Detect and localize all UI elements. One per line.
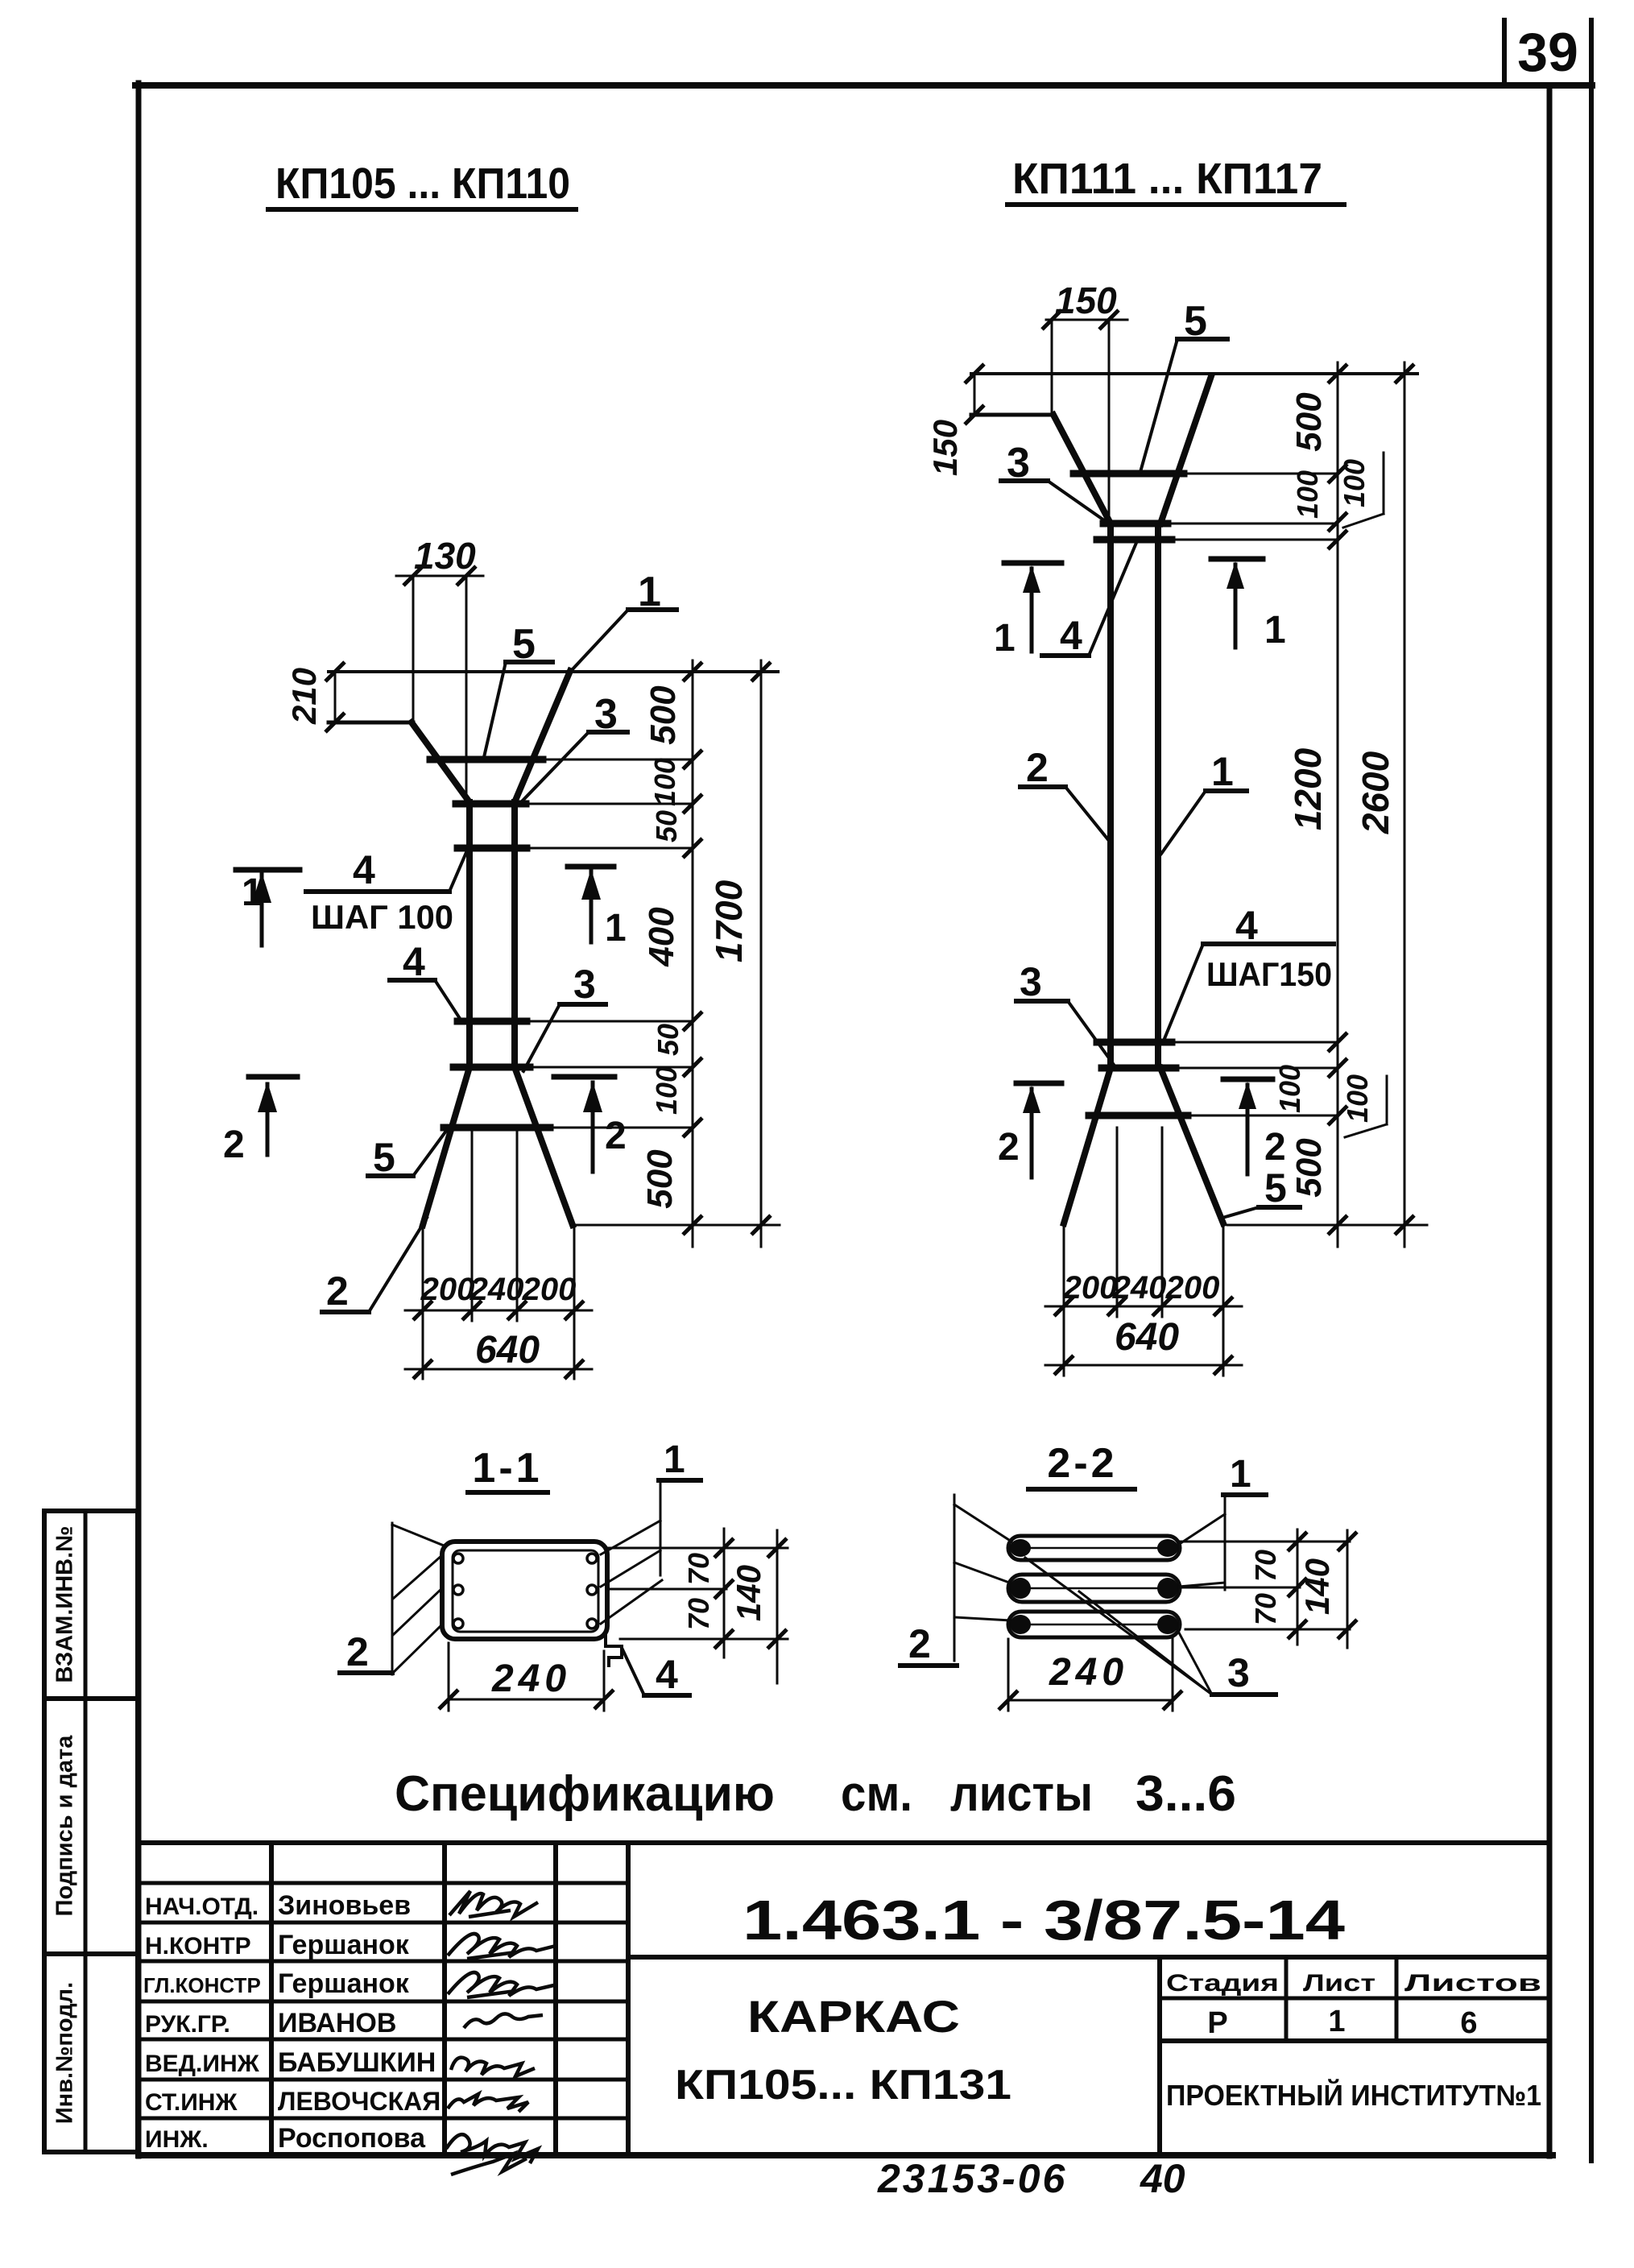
svg-text:40: 40 <box>1140 2156 1185 2201</box>
svg-text:НАЧ.ОТД.: НАЧ.ОТД. <box>145 1893 259 1920</box>
svg-text:КП105... КП131: КП105... КП131 <box>675 2062 1011 2109</box>
svg-text:100: 100 <box>650 1066 683 1115</box>
svg-text:640: 640 <box>1115 1316 1179 1359</box>
svg-text:2: 2 <box>1264 1126 1286 1169</box>
svg-text:3: 3 <box>1020 959 1042 1004</box>
svg-text:Инв.№подл.: Инв.№подл. <box>52 1982 78 2124</box>
svg-text:ВЗАМ.ИНВ.№: ВЗАМ.ИНВ.№ <box>52 1526 78 1683</box>
svg-text:240: 240 <box>491 1658 571 1700</box>
svg-text:500: 500 <box>1289 392 1329 452</box>
svg-text:130: 130 <box>414 535 476 577</box>
svg-text:2: 2 <box>326 1269 349 1314</box>
svg-text:50: 50 <box>652 1024 685 1056</box>
svg-text:Подпись и дата: Подпись и дата <box>52 1735 78 1917</box>
svg-text:4: 4 <box>1235 903 1258 948</box>
section marks <box>236 867 614 1172</box>
svg-text:Гершанок: Гершанок <box>278 1968 410 1999</box>
svg-text:70: 70 <box>1249 1593 1282 1625</box>
svg-text:1: 1 <box>1230 1453 1251 1496</box>
svg-text:1: 1 <box>638 569 661 615</box>
svg-text:1.463.1 - 3/87.5-14: 1.463.1 - 3/87.5-14 <box>743 1889 1345 1951</box>
svg-text:см.: см. <box>841 1766 912 1822</box>
svg-text:4: 4 <box>656 1652 678 1697</box>
TITLE BLOCK <box>139 1843 1549 2156</box>
svg-text:2: 2 <box>223 1124 245 1166</box>
svg-text:23153-06: 23153-06 <box>877 2156 1067 2201</box>
svg-text:2-2: 2-2 <box>1047 1440 1117 1487</box>
svg-text:ПРОЕКТНЫЙ ИНСТИТУТ№1: ПРОЕКТНЫЙ ИНСТИТУТ№1 <box>1166 2078 1541 2112</box>
svg-text:5: 5 <box>373 1135 395 1180</box>
FRAME <box>135 82 1592 89</box>
svg-text:50: 50 <box>650 810 683 842</box>
signatures <box>446 1891 557 2175</box>
svg-text:1: 1 <box>605 907 627 950</box>
svg-text:6: 6 <box>1460 2006 1477 2040</box>
svg-text:2: 2 <box>605 1115 627 1157</box>
svg-text:2: 2 <box>1026 745 1049 790</box>
thin construction/dim lines <box>329 576 780 1379</box>
svg-text:500: 500 <box>640 1149 680 1209</box>
svg-text:2: 2 <box>998 1126 1020 1169</box>
svg-text:1: 1 <box>994 617 1016 660</box>
svg-text:3: 3 <box>573 962 596 1007</box>
svg-text:39: 39 <box>1517 22 1578 83</box>
svg-text:Гершанок: Гершанок <box>278 1930 410 1960</box>
svg-text:200: 200 <box>522 1272 577 1307</box>
svg-text:Зиновьев: Зиновьев <box>278 1890 411 1921</box>
svg-text:1-1: 1-1 <box>472 1445 542 1492</box>
LEFT FIGURE (cage KP105) <box>236 576 780 1379</box>
svg-text:240: 240 <box>1049 1651 1128 1694</box>
ticks left figure <box>403 566 423 586</box>
svg-text:КП111 ... КП117: КП111 ... КП117 <box>1012 155 1322 203</box>
svg-text:140: 140 <box>730 1565 767 1621</box>
svg-text:1700: 1700 <box>708 879 750 962</box>
svg-text:200: 200 <box>1063 1270 1118 1306</box>
svg-text:СТ.ИНЖ: СТ.ИНЖ <box>145 2089 238 2116</box>
svg-text:5: 5 <box>512 621 536 668</box>
svg-text:500: 500 <box>1289 1138 1329 1198</box>
svg-text:листы: листы <box>950 1766 1093 1822</box>
svg-text:70: 70 <box>682 1553 715 1585</box>
svg-text:240: 240 <box>470 1272 524 1307</box>
svg-text:ШАГ150: ШАГ150 <box>1206 955 1332 993</box>
svg-text:150: 150 <box>926 420 964 476</box>
svg-text:2: 2 <box>908 1621 931 1666</box>
svg-text:ВЕД.ИНЖ: ВЕД.ИНЖ <box>145 2051 260 2077</box>
svg-text:3: 3 <box>1007 440 1030 486</box>
svg-text:ЛЕВОЧСКАЯ: ЛЕВОЧСКАЯ <box>278 2087 441 2116</box>
svg-text:1: 1 <box>1264 609 1286 652</box>
svg-text:ИНЖ.: ИНЖ. <box>145 2126 209 2153</box>
svg-text:ИВАНОВ: ИВАНОВ <box>278 2008 396 2038</box>
svg-text:4: 4 <box>353 847 375 892</box>
svg-text:Роспопова: Роспопова <box>278 2123 426 2154</box>
svg-text:ГЛ.КОНСТР: ГЛ.КОНСТР <box>143 1973 261 1997</box>
svg-text:5: 5 <box>1264 1165 1287 1211</box>
svg-text:КАРКАС: КАРКАС <box>747 1991 960 2042</box>
svg-text:1: 1 <box>242 871 263 914</box>
svg-text:4: 4 <box>403 939 425 984</box>
svg-text:200: 200 <box>420 1272 475 1307</box>
svg-text:100: 100 <box>1273 1065 1306 1113</box>
svg-text:3: 3 <box>594 691 618 738</box>
svg-text:1200: 1200 <box>1287 747 1329 830</box>
svg-text:5: 5 <box>1184 298 1207 345</box>
svg-text:150: 150 <box>1055 279 1117 321</box>
svg-text:Лист: Лист <box>1303 1970 1375 1997</box>
svg-text:4: 4 <box>1060 613 1082 658</box>
RIGHT FIGURE (cage KP111) <box>971 320 1427 1376</box>
svg-text:Спецификацию: Спецификацию <box>395 1766 775 1822</box>
svg-text:2: 2 <box>346 1629 369 1674</box>
svg-text:РУК.ГР.: РУК.ГР. <box>145 2011 230 2038</box>
svg-text:3: 3 <box>1227 1650 1250 1695</box>
svg-text:Н.КОНТР: Н.КОНТР <box>145 1933 251 1960</box>
svg-text:200: 200 <box>1165 1270 1220 1306</box>
svg-text:Р: Р <box>1207 2006 1227 2040</box>
SIDEBAR <box>44 1511 138 2152</box>
leaders / underlines <box>306 610 676 1312</box>
svg-text:100: 100 <box>1341 1074 1374 1123</box>
svg-text:ШАГ 100: ШАГ 100 <box>311 898 453 936</box>
svg-text:100: 100 <box>1338 459 1371 507</box>
svg-text:1: 1 <box>1211 749 1234 794</box>
section arrowheads <box>252 869 602 1112</box>
svg-text:100: 100 <box>648 758 681 806</box>
svg-text:210: 210 <box>285 668 323 725</box>
svg-text:Листов: Листов <box>1404 1970 1541 1997</box>
svg-text:640: 640 <box>475 1329 540 1372</box>
svg-text:500: 500 <box>643 685 683 745</box>
svg-text:100: 100 <box>1291 470 1324 519</box>
svg-text:2600: 2600 <box>1355 751 1396 834</box>
svg-text:КП105 ... КП110: КП105 ... КП110 <box>275 159 570 208</box>
svg-text:1: 1 <box>664 1438 685 1481</box>
thick cage outline <box>412 671 573 1225</box>
svg-text:70: 70 <box>1249 1550 1282 1582</box>
svg-text:240: 240 <box>1112 1270 1167 1306</box>
svg-text:1: 1 <box>1328 2005 1345 2038</box>
svg-text:400: 400 <box>642 907 681 967</box>
svg-text:БАБУШКИН: БАБУШКИН <box>278 2047 436 2078</box>
svg-text:70: 70 <box>682 1598 715 1630</box>
svg-text:3...6: 3...6 <box>1136 1766 1236 1822</box>
svg-text:Стадия: Стадия <box>1166 1970 1279 1997</box>
svg-text:140: 140 <box>1298 1558 1336 1615</box>
